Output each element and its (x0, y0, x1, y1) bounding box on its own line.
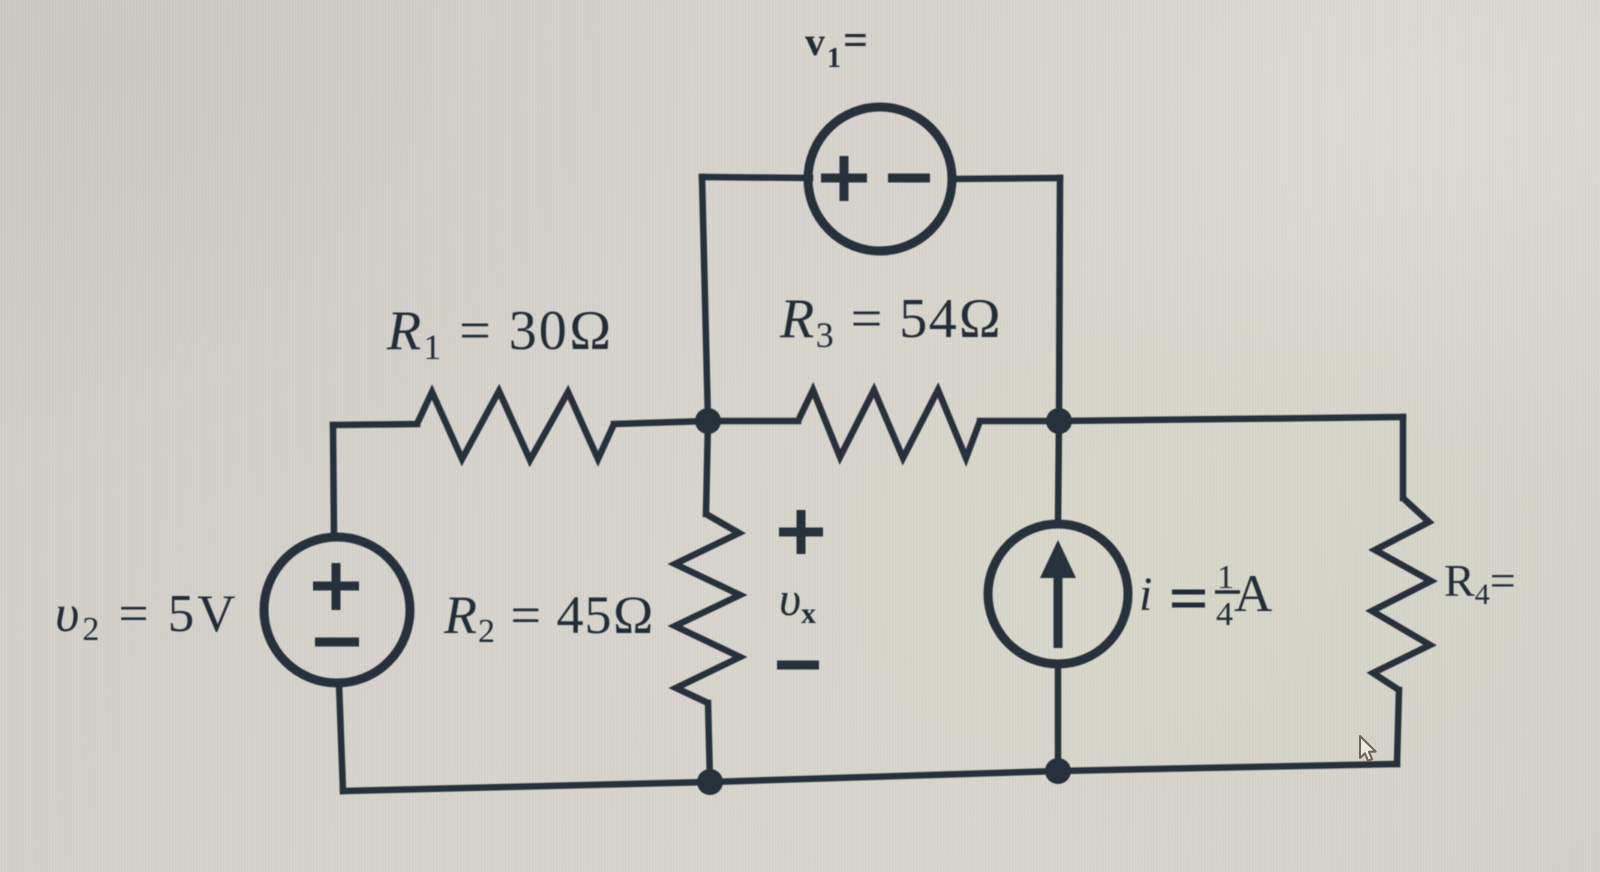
svg-text:A: A (1234, 565, 1272, 623)
wire R1 to node A (614, 421, 708, 424)
current source circle (988, 524, 1128, 664)
wire R2 to bottom dot (708, 703, 710, 782)
wire top loop right horizontal (951, 178, 1060, 179)
wire node A down to R2 (706, 421, 708, 514)
v2 plus sign (313, 563, 359, 610)
wire R3 to node B (980, 418, 1059, 425)
bottom junction dot right (1045, 758, 1071, 784)
vx minus sign (777, 661, 819, 670)
svg-text:υx: υx (779, 573, 816, 630)
wire top loop right vertical down to node B (1059, 178, 1060, 421)
bottom junction dot left (697, 769, 723, 795)
voltage source v2 circle (264, 537, 410, 683)
svg-text:R2 = 45Ω: R2 = 45Ω (443, 585, 655, 650)
svg-text:R1 = 30Ω: R1 = 30Ω (386, 300, 614, 367)
wire node A up to top loop (702, 177, 708, 421)
voltage source V1 circle (808, 107, 952, 251)
resistor R3 (798, 390, 980, 458)
svg-text:i: i (1139, 568, 1152, 621)
wire node B to top-right corner (1059, 417, 1403, 421)
svg-text:R4=: R4= (1444, 555, 1516, 611)
node B junction dot (1046, 408, 1072, 434)
resistor R2 (vertical) (675, 514, 740, 703)
wire left branch bottom vertical (339, 684, 343, 791)
resistor R4 (1372, 498, 1431, 690)
svg-text:R3 = 54Ω: R3 = 54Ω (779, 288, 1003, 355)
wire top-left horizontal (333, 424, 417, 425)
wire bottom-right horizontal (1058, 764, 1397, 771)
svg-text:4: 4 (1216, 596, 1233, 633)
node A junction dot (695, 408, 721, 434)
vx plus sign (779, 510, 823, 554)
wire R4 down to bottom-right corner (1397, 690, 1399, 764)
V1 plus sign (821, 156, 867, 201)
label i = 1/4 A (1139, 559, 1272, 633)
svg-text:v1=: v1= (805, 16, 870, 74)
wire left branch top vertical (333, 425, 334, 537)
wire node B down to current source (1058, 421, 1059, 525)
v2 minus sign (315, 638, 359, 647)
wire bottom middle horizontal (710, 771, 1058, 782)
mouse cursor (1360, 736, 1376, 761)
current source arrow (1040, 540, 1076, 648)
svg-text:υ2 = 5V: υ2 = 5V (55, 585, 239, 648)
wire right branch down to R4 (1400, 417, 1407, 498)
wire node A to R3 (708, 418, 798, 425)
resistor R1 (417, 391, 614, 460)
wire current source to bottom (1055, 664, 1062, 771)
wire bottom-left horizontal (343, 782, 710, 791)
wire top loop left horizontal (702, 177, 810, 178)
V1 minus sign (888, 174, 930, 183)
